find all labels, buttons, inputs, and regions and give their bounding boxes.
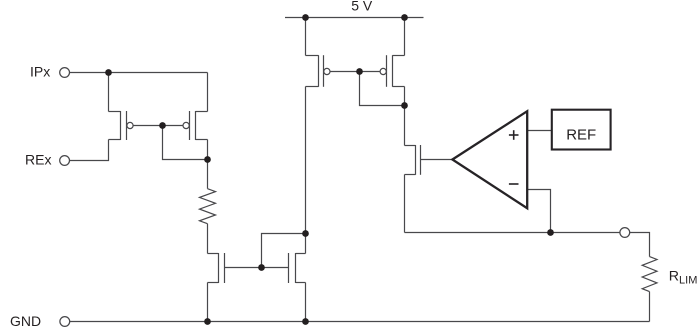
- junction node top pair gates: [356, 68, 363, 75]
- resistor RLIM: [642, 257, 657, 292]
- pmos Q4 (top mirror right, diode connected): [380, 55, 404, 87]
- wire top gate tie to drain node: [360, 72, 405, 106]
- wire Q3 drain long vertical to Q7 drain: [305, 87, 307, 254]
- terminal output: [620, 228, 630, 238]
- junction node Q4 drain: [401, 102, 408, 109]
- wire terminal to RLIM corner: [630, 233, 650, 257]
- pmos Q2 (input pair right, diode connected): [183, 111, 208, 140]
- junction node rail left: [302, 14, 309, 21]
- junction node rail right: [401, 14, 408, 21]
- svg-text:IPx: IPx: [30, 64, 50, 80]
- junction node IPx: [105, 69, 112, 76]
- wire feedback rail: [405, 232, 621, 234]
- junction node ground right: [302, 318, 309, 325]
- svg-text:GND: GND: [10, 313, 41, 328]
- wire ground rail: [70, 321, 650, 323]
- wire Q5 source down to feedback rail: [404, 175, 406, 233]
- wire comparator minus input to feedback node: [528, 190, 551, 233]
- svg-text:RLIM: RLIM: [669, 268, 698, 286]
- wire IPx corner down to Q2 source: [207, 73, 209, 112]
- junction node feedback: [547, 229, 554, 236]
- wire Q3 source to rail: [305, 18, 307, 56]
- wire Q4 source to rail: [404, 18, 406, 56]
- wire node to resistor R1: [207, 160, 209, 189]
- wire Q1-Q2 gate tie: [133, 125, 183, 127]
- svg-text:5 V: 5 V: [351, 0, 373, 13]
- junction node input pair gates: [159, 122, 166, 129]
- wire IPx lead: [70, 72, 208, 74]
- wire REx lead: [70, 140, 109, 161]
- wire Q2 drain down to node: [207, 140, 209, 160]
- wire Q3-Q4 gate tie: [330, 71, 380, 73]
- plus input label: [509, 130, 519, 140]
- pmos Q1 (input pair left): [109, 111, 134, 140]
- wire Q5 gate to comparator output: [421, 159, 453, 161]
- wire Q4 drain down to node: [404, 87, 406, 106]
- wire gate node down-right to drain node: [163, 126, 208, 160]
- op-amp U1 (comparator): [452, 111, 527, 208]
- junction node mirror gates: [258, 264, 265, 271]
- minus input label: [509, 183, 519, 185]
- terminal GND: [60, 317, 70, 327]
- resistor R1: [200, 189, 216, 224]
- 5V supply rail wire: [285, 17, 424, 19]
- wire IPx node down to Q1 source: [108, 73, 110, 112]
- pmos Q3 (top mirror left): [306, 55, 331, 87]
- svg-text:REx: REx: [25, 151, 51, 167]
- wire resistor to Q6 drain: [207, 224, 209, 254]
- wire node down to Q5 drain: [404, 106, 406, 146]
- nmos Q6 (mirror left): [208, 253, 225, 283]
- junction node Q7 drain: [302, 230, 309, 237]
- wire RLIM to ground: [649, 292, 651, 322]
- terminal REx: [60, 156, 70, 166]
- junction node Q2 drain: [204, 156, 211, 163]
- wire mirror gate to Q7 drain node: [262, 234, 306, 268]
- wire Q7 source to ground: [305, 283, 307, 322]
- nmos Q7 (mirror right, diode connected): [289, 253, 306, 283]
- wire comparator plus input to REF: [528, 130, 552, 132]
- wire Q6 source to ground: [207, 283, 209, 322]
- REF block: [552, 110, 611, 150]
- junction node ground left: [204, 318, 211, 325]
- svg-text:REF: REF: [566, 127, 596, 144]
- terminal IPx: [60, 68, 70, 78]
- nmos Q5 (pass transistor): [405, 145, 421, 175]
- wire Q6-Q7 gate tie: [225, 267, 289, 269]
